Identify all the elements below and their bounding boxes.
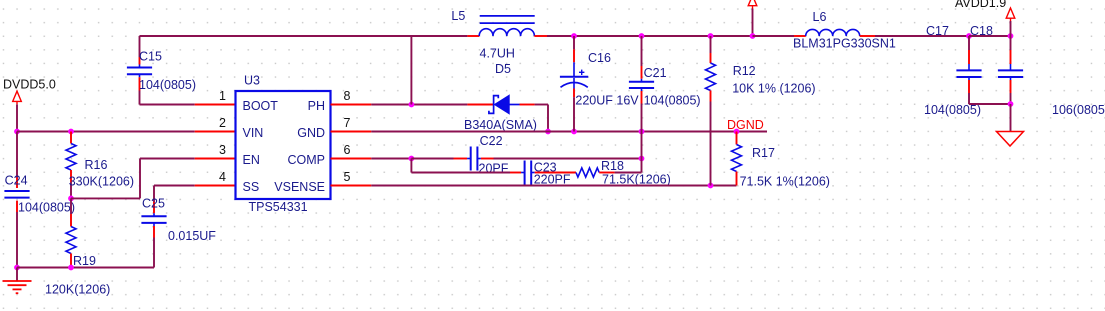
- svg-text:VSENSE: VSENSE: [274, 180, 325, 194]
- svg-text:COMP: COMP: [288, 153, 326, 167]
- svg-text:R18: R18: [601, 159, 624, 173]
- svg-text:U3: U3: [244, 74, 260, 88]
- inductor L6: [793, 10, 896, 51]
- pin 7 stub GND: [331, 131, 372, 133]
- svg-text:6: 6: [344, 143, 351, 157]
- wire PH riser: [410, 36, 412, 105]
- node VIN junction at (17,131.5): [14, 129, 20, 135]
- wire DVDD5.0 stem: [16, 104, 18, 131]
- pin number 3: [219, 143, 226, 157]
- svg-text:DGND: DGND: [727, 118, 764, 132]
- pin name VIN: [243, 126, 264, 140]
- pin name SS: [243, 180, 260, 194]
- svg-text:R16: R16: [85, 158, 108, 172]
- svg-text:106(0805): 106(0805): [1052, 103, 1105, 117]
- wire C17 bottom join: [969, 103, 1011, 105]
- svg-text:71.5K 1%(1206): 71.5K 1%(1206): [740, 175, 830, 189]
- pin name BOOT: [243, 99, 279, 113]
- wire C17 to C18 rail: [969, 35, 1011, 37]
- node comp-join junction: [639, 156, 645, 162]
- resistor R19: [45, 198, 110, 296]
- wire R18 to comp join: [615, 159, 642, 173]
- capacitor C22: [454, 134, 509, 175]
- node C16 top junction: [571, 33, 577, 39]
- svg-text:220UF 16V: 220UF 16V: [575, 94, 639, 108]
- capacitor C21: [629, 36, 701, 132]
- pin number 6: [344, 143, 351, 157]
- resistor R17: [732, 132, 830, 189]
- svg-text:8: 8: [344, 89, 351, 103]
- svg-text:120K(1206): 120K(1206): [45, 283, 110, 297]
- pin name COMP: [288, 153, 326, 167]
- wire C22 to junction: [494, 158, 642, 160]
- svg-text:L5: L5: [451, 9, 465, 23]
- power symbol DVDD5.0: [3, 78, 56, 105]
- svg-text:C22: C22: [480, 134, 503, 148]
- pin name GND: [297, 126, 325, 140]
- svg-text:3: 3: [219, 143, 226, 157]
- capacitor C24: [4, 132, 75, 268]
- svg-text:71.5K(1206): 71.5K(1206): [602, 172, 671, 186]
- svg-text:C15: C15: [139, 50, 162, 64]
- capacitor C18: [970, 24, 1105, 117]
- pin number 7: [344, 116, 351, 130]
- svg-text:220PF: 220PF: [534, 172, 571, 186]
- svg-text:R19: R19: [73, 254, 96, 268]
- capacitor C23: [510, 160, 571, 186]
- svg-text:104(0805): 104(0805): [139, 78, 196, 92]
- node C17 top junction: [966, 33, 972, 39]
- node D5 anode junction: [545, 129, 551, 135]
- wire BOOT net: [140, 104, 195, 106]
- node bottom-rail left junction: [14, 265, 20, 271]
- svg-text:1: 1: [219, 89, 226, 103]
- svg-text:5: 5: [344, 170, 351, 184]
- svg-text:B340A(SMA): B340A(SMA): [464, 118, 537, 132]
- pin number 2: [219, 116, 226, 130]
- svg-text:104(0805): 104(0805): [644, 94, 701, 108]
- wire D5 anode to GND rail: [535, 105, 548, 132]
- wire L6 to C17: [875, 35, 969, 37]
- pin 3 stub EN: [195, 158, 236, 160]
- wire GND rail: [371, 131, 767, 133]
- svg-text:C25: C25: [142, 197, 165, 211]
- node C21 bottom junction: [639, 129, 645, 135]
- node EN divider junction: [68, 196, 74, 202]
- resistor R18: [549, 159, 671, 186]
- svg-text:2: 2: [219, 116, 226, 130]
- svg-text:SS: SS: [243, 180, 260, 194]
- node output arrow junction: [750, 33, 756, 39]
- svg-text:D5: D5: [495, 62, 511, 76]
- svg-text:R17: R17: [752, 146, 775, 160]
- svg-text:C18: C18: [970, 24, 993, 38]
- svg-text:0.015UF: 0.015UF: [168, 229, 216, 243]
- svg-text:10K 1% (1206): 10K 1% (1206): [732, 82, 815, 96]
- wire COMP upper branch: [411, 158, 453, 160]
- svg-text:C21: C21: [644, 66, 667, 80]
- svg-text:C16: C16: [588, 51, 611, 65]
- pin number 8: [344, 89, 351, 103]
- svg-text:L6: L6: [813, 10, 827, 24]
- power symbol output rail arrow: [748, 0, 757, 9]
- ground triangle symbol: [997, 132, 1024, 147]
- wire top rail middle: [547, 35, 753, 37]
- wire PH net: [371, 104, 467, 106]
- wire COMP lower branch: [411, 159, 510, 173]
- node C16 bottom junction: [571, 129, 577, 135]
- svg-text:104(0805): 104(0805): [924, 103, 981, 117]
- power symbol AVDD1.9: [955, 0, 1015, 21]
- wire bottom rail: [17, 267, 154, 269]
- pin 1 stub BOOT: [195, 104, 236, 106]
- wire to ground triangle: [1010, 104, 1012, 132]
- node R19 bottom junction: [68, 265, 74, 271]
- node R17 top junction: [734, 129, 740, 135]
- pin 4 stub SS: [195, 185, 236, 187]
- wire top rail left: [140, 35, 468, 37]
- resistor R12: [706, 36, 816, 186]
- node R12 top junction: [708, 33, 714, 39]
- ground earth symbol: [3, 268, 32, 294]
- svg-text:BLM31PG330SN1: BLM31PG330SN1: [793, 37, 896, 51]
- node DGND net label: [727, 118, 764, 132]
- wire AVDD arrow stem: [1010, 21, 1012, 36]
- svg-text:VIN: VIN: [243, 126, 264, 140]
- node C21 top junction: [639, 33, 645, 39]
- wire rail to L6: [753, 35, 795, 37]
- pin name PH: [308, 99, 325, 113]
- capacitor C17: [924, 24, 982, 117]
- wire comp join riser: [641, 132, 643, 159]
- wire output arrow stem: [752, 9, 754, 37]
- svg-text:BOOT: BOOT: [243, 99, 279, 113]
- svg-text:EN: EN: [243, 153, 260, 167]
- wire COMP net: [371, 158, 411, 160]
- capacitor C16: [560, 36, 639, 132]
- resistor R16: [66, 132, 134, 199]
- svg-text:C24: C24: [5, 174, 28, 188]
- pin 8 stub PH: [331, 104, 372, 106]
- svg-text:TPS54331: TPS54331: [249, 200, 308, 214]
- svg-text:DVDD5.0: DVDD5.0: [3, 78, 56, 92]
- svg-text:104(0805): 104(0805): [18, 201, 75, 215]
- capacitor C15: [127, 36, 196, 105]
- pin name VSENSE: [274, 180, 325, 194]
- pin number 4: [219, 170, 226, 184]
- svg-text:GND: GND: [297, 126, 325, 140]
- inductor L5: [451, 9, 547, 61]
- node C18 bottom junction: [1008, 101, 1014, 107]
- svg-text:R12: R12: [733, 64, 756, 78]
- diode D5: [464, 62, 537, 132]
- node PH junction: [409, 102, 415, 108]
- svg-text:330K(1206): 330K(1206): [69, 174, 134, 188]
- svg-text:7: 7: [344, 116, 351, 130]
- node R16 top junction: [68, 129, 74, 135]
- pin 6 stub COMP: [331, 158, 372, 160]
- svg-text:AVDD1.9: AVDD1.9: [955, 0, 1006, 10]
- wire EN net: [71, 159, 195, 199]
- pin number 5: [344, 170, 351, 184]
- capacitor C25: [141, 186, 216, 268]
- svg-text:4.7UH: 4.7UH: [480, 47, 515, 61]
- node AVDD riser junction: [1008, 33, 1014, 39]
- pin number 1: [219, 89, 226, 103]
- pin 2 stub VIN: [195, 131, 236, 133]
- wire VIN rail: [17, 131, 195, 133]
- svg-text:4: 4: [219, 170, 226, 184]
- svg-text:C17: C17: [926, 24, 949, 38]
- pin 5 stub VSENSE: [331, 185, 372, 187]
- node R12 bottom junction: [708, 183, 714, 189]
- pin name EN: [243, 153, 260, 167]
- wire VSENSE rail: [371, 185, 736, 187]
- wire SS net: [154, 185, 195, 187]
- op-amp U3 TPS54331 body: [236, 74, 331, 215]
- svg-text:PH: PH: [308, 99, 325, 113]
- node COMP junction: [409, 156, 415, 162]
